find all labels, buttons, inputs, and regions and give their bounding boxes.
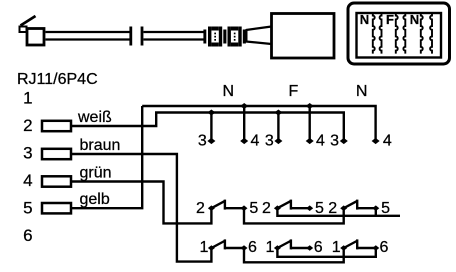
- svg-text:5: 5: [315, 200, 324, 217]
- svg-text:4: 4: [316, 133, 325, 150]
- svg-text:F: F: [289, 83, 299, 100]
- svg-text:1: 1: [332, 239, 341, 256]
- svg-text:1: 1: [265, 239, 274, 256]
- svg-text:5: 5: [381, 200, 390, 217]
- svg-text:gelb: gelb: [80, 191, 110, 208]
- svg-text:RJ11/6P4C: RJ11/6P4C: [17, 71, 98, 88]
- svg-text:N: N: [223, 83, 235, 100]
- svg-text:2: 2: [196, 200, 205, 217]
- svg-text:3: 3: [23, 144, 32, 163]
- svg-text:3: 3: [265, 133, 274, 150]
- svg-text:6: 6: [248, 239, 257, 256]
- svg-text:5: 5: [249, 200, 258, 217]
- svg-text:2: 2: [262, 200, 271, 217]
- svg-text:N: N: [356, 83, 368, 100]
- svg-text:6: 6: [379, 239, 388, 256]
- svg-text:4: 4: [251, 133, 260, 150]
- svg-text:4: 4: [383, 133, 392, 150]
- svg-text:N: N: [360, 12, 369, 27]
- svg-text:2: 2: [328, 200, 337, 217]
- svg-text:N: N: [410, 12, 419, 27]
- svg-text:5: 5: [23, 199, 32, 218]
- svg-text:F: F: [386, 12, 394, 27]
- svg-text:weiß: weiß: [77, 109, 112, 126]
- svg-text:6: 6: [23, 226, 32, 245]
- svg-text:4: 4: [23, 171, 32, 190]
- svg-text:3: 3: [330, 133, 339, 150]
- svg-text:2: 2: [23, 116, 32, 135]
- svg-text:3: 3: [198, 133, 207, 150]
- svg-text:6: 6: [314, 239, 323, 256]
- svg-text:braun: braun: [80, 137, 121, 154]
- svg-text:grün: grün: [80, 165, 112, 182]
- svg-text:1: 1: [23, 88, 32, 107]
- svg-text:1: 1: [199, 239, 208, 256]
